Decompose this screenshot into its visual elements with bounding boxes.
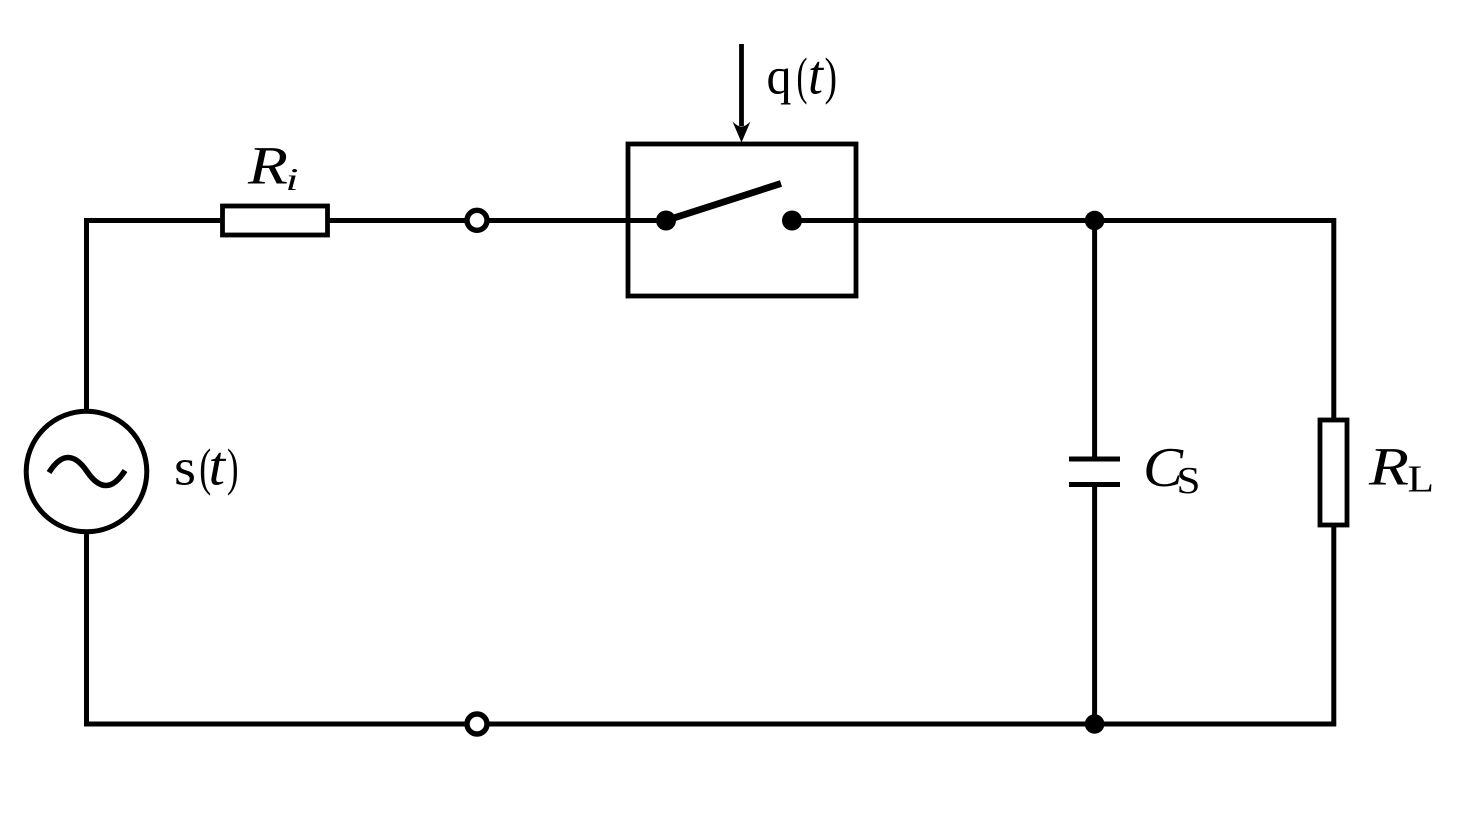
control arrow head	[733, 122, 751, 143]
label CS	[1143, 437, 1201, 502]
svg-text:q: q	[767, 49, 792, 106]
label Ri	[247, 136, 299, 198]
svg-text:(: (	[797, 49, 808, 106]
wire bottom right segment	[489, 722, 1334, 727]
wire right vertical lower	[1331, 525, 1336, 727]
wire left vertical upper	[84, 218, 89, 412]
svg-text:R: R	[247, 136, 288, 196]
svg-text:): )	[227, 440, 239, 497]
wire left vertical lower	[84, 532, 89, 727]
svg-text:R: R	[1368, 437, 1409, 497]
source sine symbol	[49, 458, 125, 486]
wire bottom left segment	[84, 722, 466, 727]
source V1 circle	[26, 411, 147, 532]
capacitor C1 (CS) top plate	[1069, 457, 1120, 462]
switch right contact dot	[782, 211, 802, 231]
label RL	[1368, 437, 1434, 501]
node bottom open terminal	[467, 714, 487, 734]
wire right contact to top-right corner	[792, 218, 1334, 223]
svg-text:s: s	[174, 440, 196, 497]
wire box left edge to left contact	[628, 218, 666, 223]
label s(t)	[174, 436, 239, 498]
svg-text:i: i	[286, 161, 299, 197]
control arrow shaft q(t)	[739, 44, 744, 126]
switch S1 enclosure box	[628, 144, 856, 296]
node junction top of capacitor branch	[1085, 211, 1105, 231]
wire right vertical upper	[1331, 218, 1336, 420]
resistor R2 (RL) body	[1320, 420, 1347, 525]
resistor R1 (Ri) body	[223, 206, 328, 235]
wire capacitor branch lower	[1092, 485, 1097, 725]
node junction bottom of capacitor branch	[1085, 714, 1105, 734]
svg-text:t: t	[808, 45, 824, 107]
switch lever	[666, 184, 781, 221]
svg-text:S: S	[1177, 460, 1201, 502]
wire capacitor branch upper	[1092, 221, 1097, 460]
svg-text:t: t	[209, 436, 227, 498]
svg-text:L: L	[1408, 459, 1435, 501]
node top open terminal	[467, 210, 487, 230]
switch left contact dot	[656, 211, 676, 231]
wire top terminal to switch box	[489, 218, 631, 223]
wire top-left horizontal segment	[84, 218, 223, 223]
wire resistor to top terminal	[328, 218, 466, 223]
label q(t)	[767, 45, 838, 107]
capacitor C1 (CS) bottom plate	[1069, 482, 1120, 487]
svg-text:): )	[825, 49, 838, 106]
